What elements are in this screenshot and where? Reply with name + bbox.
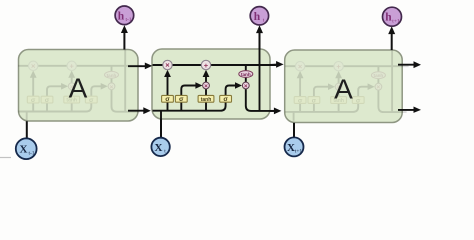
svg-text:h: h	[385, 12, 392, 24]
node h(t-1) output circle	[115, 6, 134, 25]
svg-text:t-1: t-1	[125, 17, 131, 23]
wire h output of right cell with arrowhead	[391, 31, 393, 50]
stray crop mark bottom left	[0, 157, 11, 159]
svg-text:h: h	[254, 11, 261, 23]
svg-text:A: A	[334, 74, 353, 105]
svg-text:t-1: t-1	[28, 151, 34, 157]
node x(t+1) input circle	[285, 137, 304, 156]
svg-text:t+1: t+1	[295, 149, 303, 155]
node x(t) input circle	[151, 138, 169, 156]
node x(t-1) input circle	[16, 138, 37, 159]
wire right cell bottom output arrow	[398, 109, 415, 111]
wire x input of right cell	[293, 123, 295, 139]
wire left-to-middle bottom connection with arrowhead	[128, 110, 145, 112]
wire x input of middle cell below module	[160, 119, 162, 138]
ghost internals in left A cell	[18, 50, 142, 121]
wire left-to-middle top connection with arrowhead	[128, 65, 146, 67]
cell A right (rounded green module)	[285, 50, 403, 123]
svg-text:X: X	[155, 142, 163, 154]
wire middle-to-right top connection with arrowhead	[270, 64, 277, 66]
svg-text:X: X	[20, 144, 28, 156]
cell LSTM middle (rounded green module)	[152, 49, 270, 119]
svg-text:A: A	[69, 73, 88, 104]
wire x input of left cell	[26, 121, 28, 139]
wire h output of middle cell above module with arrowhead	[259, 30, 261, 49]
cell A left (rounded green module)	[19, 50, 139, 122]
svg-text:h: h	[118, 10, 125, 22]
wire middle-to-right bottom connection with arrowhead	[270, 110, 275, 112]
dark internals of middle LSTM cell	[153, 49, 277, 120]
node h(t+1) output circle	[383, 7, 402, 26]
wire right cell top output arrow	[398, 64, 415, 66]
wire h output of left cell with arrowhead	[123, 30, 125, 50]
ghost internals in right A cell	[285, 50, 409, 121]
node h(t) output circle	[250, 7, 268, 25]
svg-text:t+1: t+1	[392, 18, 400, 24]
